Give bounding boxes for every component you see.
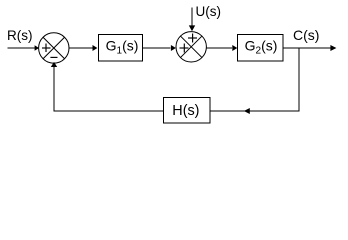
wire branch to H(s) [210, 110, 299, 112]
svg-text:C(s): C(s) [293, 27, 319, 43]
svg-text:H(s): H(s) [172, 103, 199, 119]
wire R(s) input [8, 47, 36, 49]
summing junction S1 [39, 33, 69, 63]
wire U(s) input [191, 8, 193, 27]
wire feedback up to S1 [53, 67, 55, 112]
wire G1 to S2 [143, 47, 171, 49]
wire branch down from output [298, 48, 300, 112]
plus sign S2 top [188, 34, 197, 43]
svg-text:U(s): U(s) [196, 4, 222, 19]
svg-text:R(s): R(s) [7, 28, 33, 43]
block H1 [164, 98, 211, 124]
plus sign S1 left [42, 44, 51, 53]
minus sign S1 bottom [50, 56, 57, 58]
wire G2 to output [283, 47, 331, 49]
wire S2 to G2 [206, 47, 232, 49]
wire H(s) to left corner [54, 110, 164, 112]
wire S1 to G1 [69, 47, 93, 49]
plus sign S2 left [180, 44, 189, 53]
block G1 [99, 35, 143, 62]
summing junction S2 [176, 32, 206, 62]
block G2 [238, 35, 284, 62]
